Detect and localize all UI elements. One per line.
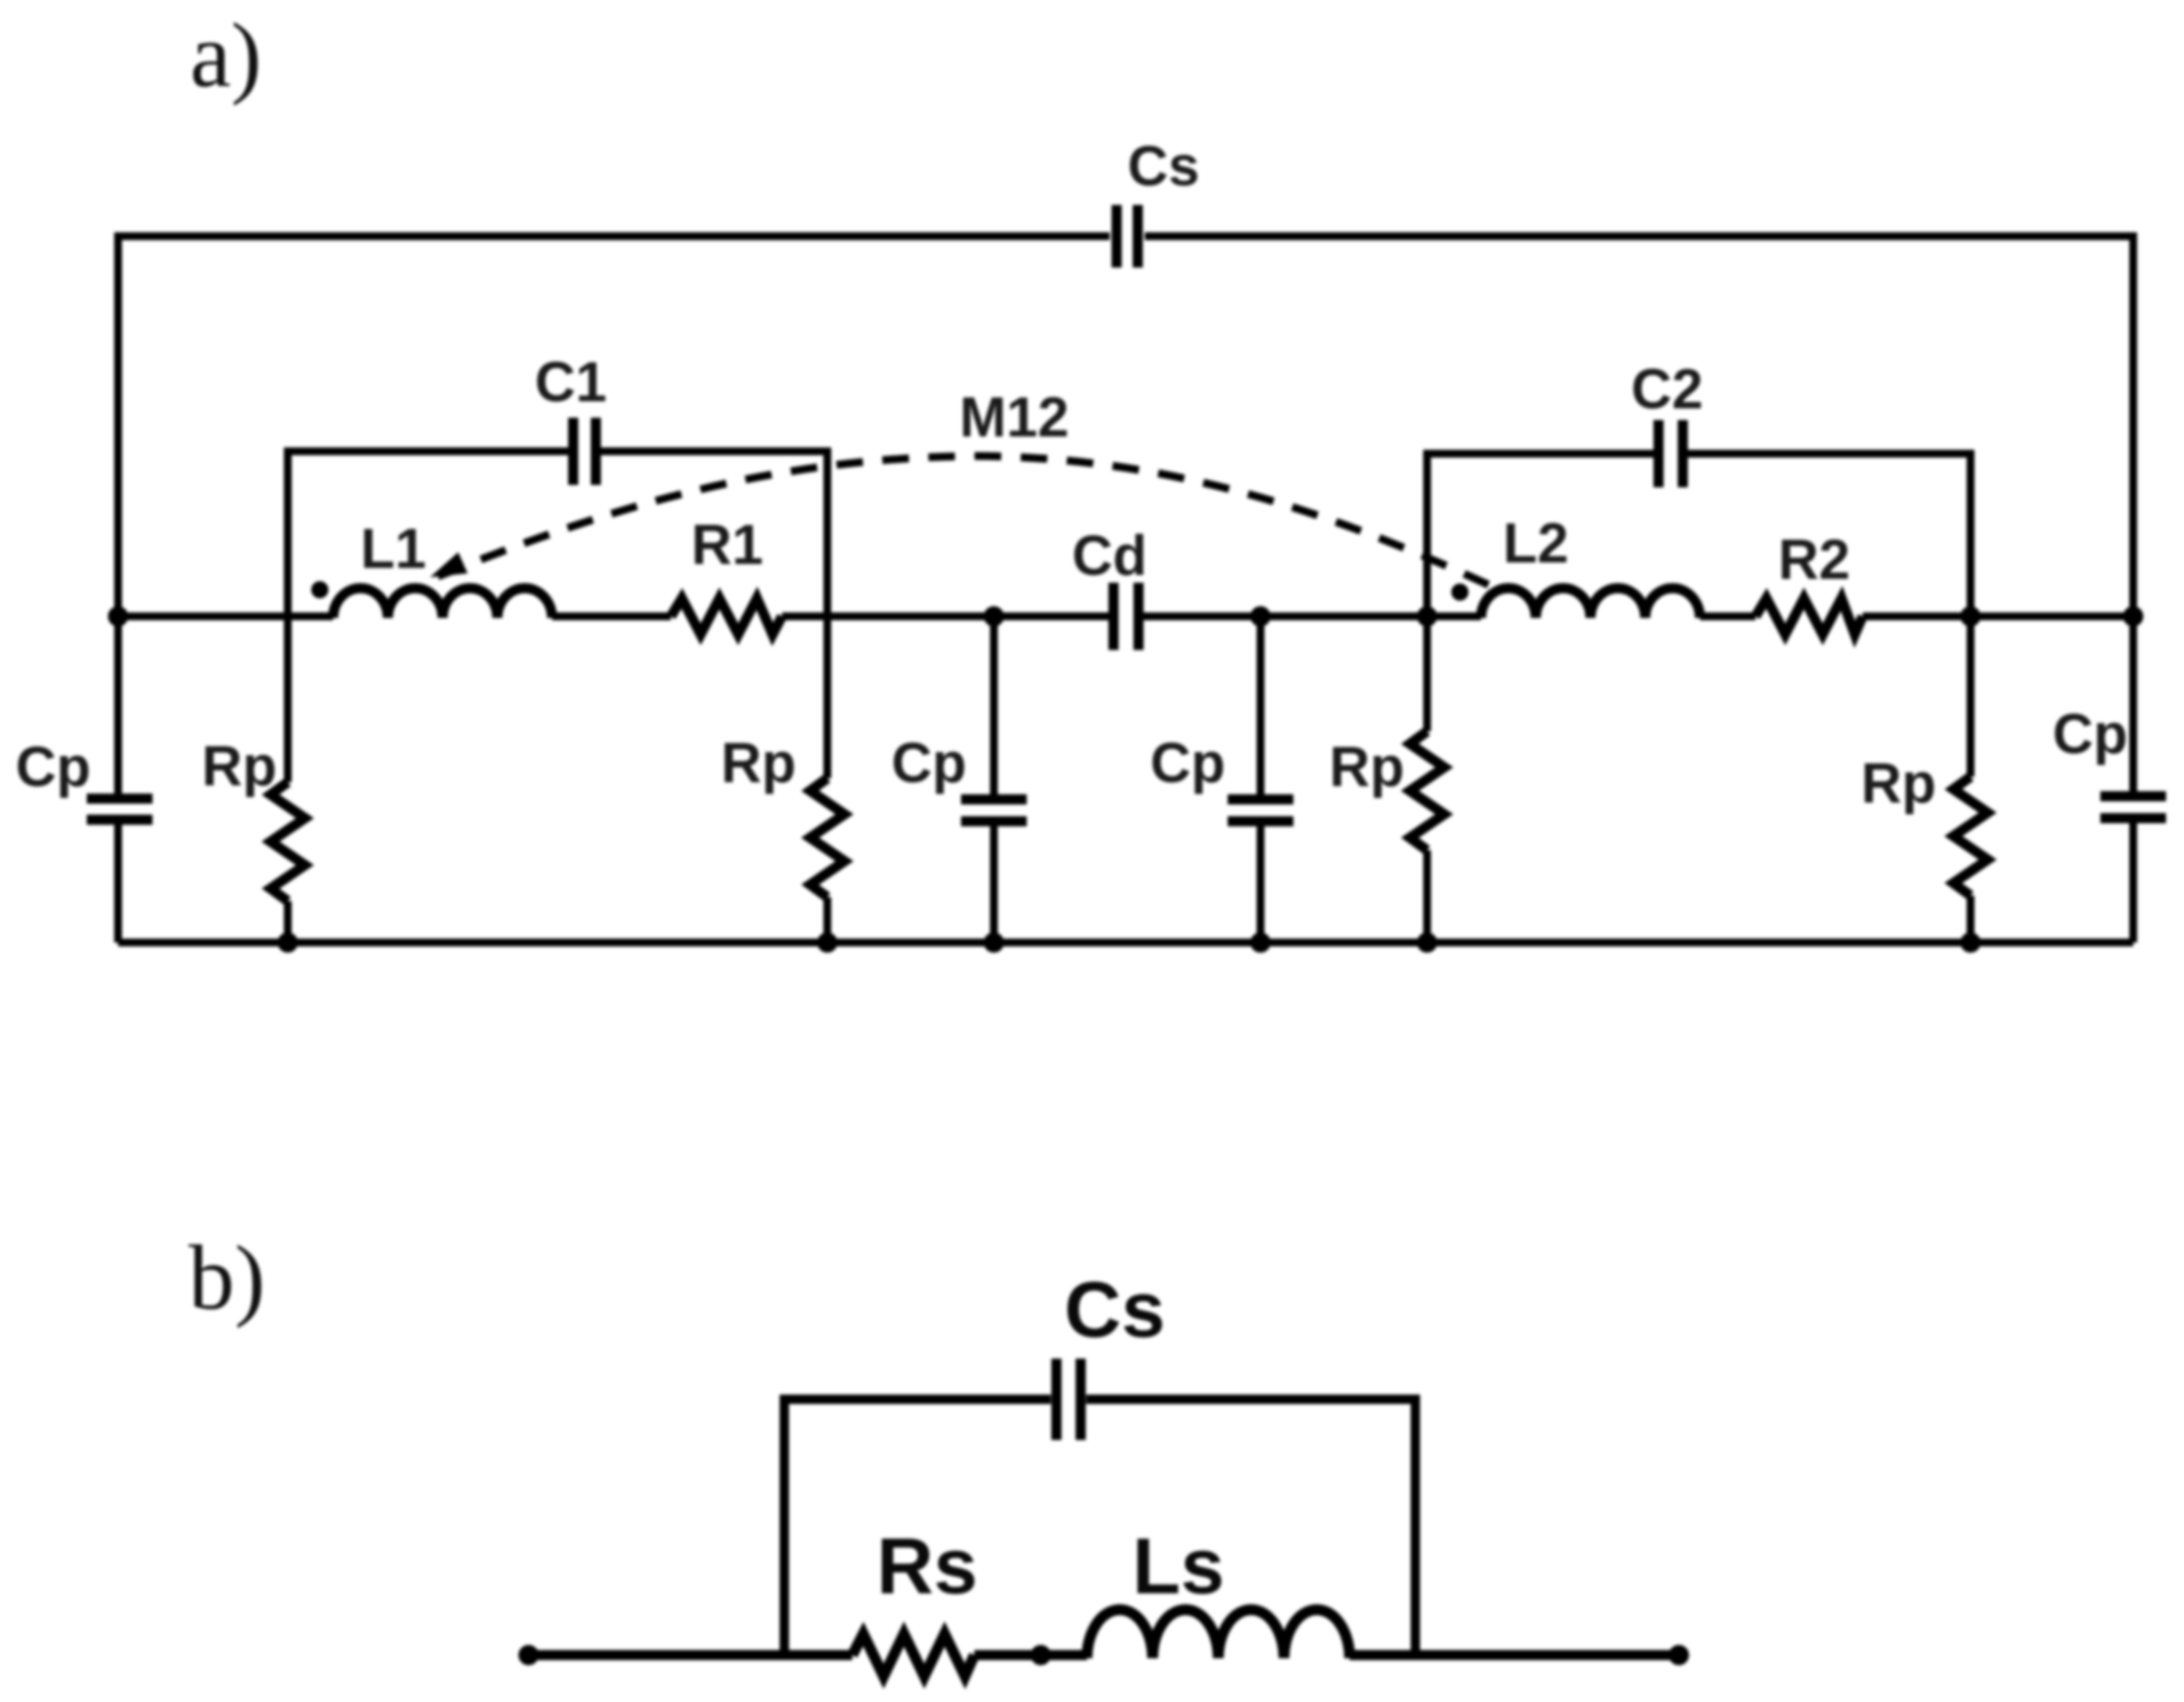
svg-text:L1: L1 xyxy=(360,518,426,580)
wire: bottom rail xyxy=(118,939,2133,946)
junction node at left loop right leg / bottom rail xyxy=(817,932,837,953)
wire: Cp branch 2 lower xyxy=(1257,825,1264,943)
junction node at leftmost Rp / bottom rail xyxy=(278,932,298,953)
junction node at right loop right leg / bottom rail xyxy=(1960,932,1981,953)
svg-text:Rp: Rp xyxy=(1329,736,1404,799)
svg-text:Cd: Cd xyxy=(1072,525,1147,587)
capacitor Cp (branch 2) xyxy=(1228,799,1293,821)
junction node at Cp branch 2 / main line xyxy=(1250,606,1271,627)
mutual coupling M12 dashed curve xyxy=(438,456,1497,589)
svg-text:Cp: Cp xyxy=(1150,732,1225,795)
svg-text:Ls: Ls xyxy=(1132,1523,1225,1610)
resistor Rs xyxy=(852,1634,974,1676)
junction node at right loop left leg / main line xyxy=(1417,606,1437,627)
junction node at right loop right leg / main line xyxy=(1960,606,1981,627)
wire: below Rp leftmost xyxy=(284,901,292,943)
wire: right loop left leg below main line xyxy=(1423,616,1431,731)
wire: outer top-left (left vertical upper + top wire left of Cs) xyxy=(118,236,1110,795)
svg-text:R1: R1 xyxy=(691,514,763,576)
svg-text:Cp: Cp xyxy=(2053,703,2128,766)
capacitor Cd xyxy=(1114,583,1139,650)
svg-text:C1: C1 xyxy=(535,351,607,414)
wire: left resonator loop top with C1 xyxy=(288,451,568,616)
junction node at Cp branch 2 / bottom rail xyxy=(1250,932,1271,953)
terminal dot left xyxy=(518,1645,539,1665)
wire: right loop right leg below main line xyxy=(1967,616,1974,777)
wire: left vertical lower xyxy=(114,824,122,943)
resistor R1 xyxy=(671,598,782,634)
capacitor C2 xyxy=(1659,420,1683,487)
capacitor Cp (far right, on outer right vertical) xyxy=(2100,796,2166,818)
wire: left loop right leg below main line xyxy=(823,616,831,778)
junction node at left vertical / main line xyxy=(108,606,128,627)
capacitor Cp (branch 1) xyxy=(961,799,1027,821)
capacitor Cp (far left, on outer left vertical) xyxy=(87,799,152,820)
wire: main horizontal line segments (y=788) xyxy=(118,612,333,620)
wire: part b loop top right of Cs and right vertical xyxy=(1086,1399,1415,1655)
terminal dot right xyxy=(1669,1645,1689,1665)
svg-text:Cs: Cs xyxy=(1064,1266,1165,1354)
arrowhead M12 xyxy=(430,552,468,577)
junction node at right vertical / main line xyxy=(2123,606,2143,627)
resistor Rp (leftmost) xyxy=(271,782,305,901)
inductor Ls xyxy=(1087,1610,1350,1658)
resistor Rp (left loop right leg) xyxy=(810,778,845,897)
wire: left loop left leg below main line xyxy=(284,616,292,782)
svg-text:Rp: Rp xyxy=(1861,752,1936,815)
svg-text:b): b) xyxy=(188,1226,265,1329)
wire: Cp branch 1 lower xyxy=(990,825,998,943)
capacitor Cs (part a) xyxy=(1117,205,1138,268)
inductor L2 xyxy=(1481,588,1700,618)
wire: part b loop left vertical and top left of Cs xyxy=(784,1399,1051,1655)
wire: Cp branch 2 upper xyxy=(1257,616,1264,795)
wire: below Rp right loop left leg xyxy=(1423,850,1431,943)
wire: part b main line right xyxy=(1350,1650,1679,1661)
phase dot L2 xyxy=(1451,583,1469,601)
resistor R2 xyxy=(1755,598,1863,634)
junction node at Cp branch 1 / bottom rail xyxy=(984,932,1004,953)
svg-text:C2: C2 xyxy=(1631,358,1703,421)
junction node at Cp branch 1 / main line xyxy=(984,606,1004,627)
capacitor Cs (part b) xyxy=(1056,1359,1081,1440)
junction dot between Rs and Ls xyxy=(1031,1645,1051,1665)
wire: right resonator loop top with C2 xyxy=(1427,454,1654,616)
svg-text:Cs: Cs xyxy=(1128,135,1200,198)
wire: part b between Rs and Ls xyxy=(974,1650,1087,1661)
resistor Rp (right loop right leg) xyxy=(1953,777,1988,896)
svg-text:Rp: Rp xyxy=(721,732,796,795)
svg-text:Rp: Rp xyxy=(202,735,277,798)
svg-text:Rs: Rs xyxy=(877,1523,977,1610)
inductor L1 xyxy=(333,588,552,618)
wire: part b main line left xyxy=(529,1650,852,1661)
svg-text:M12: M12 xyxy=(959,386,1069,449)
svg-text:Cp: Cp xyxy=(16,736,91,799)
svg-text:R2: R2 xyxy=(1778,529,1850,591)
wire: Cp branch 1 upper xyxy=(990,616,998,795)
phase dot L1 xyxy=(311,581,328,598)
capacitor C1 xyxy=(573,418,596,485)
wire: right vertical lower xyxy=(2129,822,2137,943)
resistor Rp (right loop left leg) xyxy=(1410,731,1444,850)
wire: below Rp left loop right leg xyxy=(823,897,831,943)
wire: top wire right of Cs + right vertical upper xyxy=(1145,236,2133,792)
svg-text:L2: L2 xyxy=(1503,512,1569,575)
wire: below Rp right loop right leg xyxy=(1967,896,1974,943)
svg-text:a): a) xyxy=(190,4,262,106)
svg-text:Cp: Cp xyxy=(891,732,966,795)
junction node at right loop left leg / bottom rail xyxy=(1417,932,1437,953)
